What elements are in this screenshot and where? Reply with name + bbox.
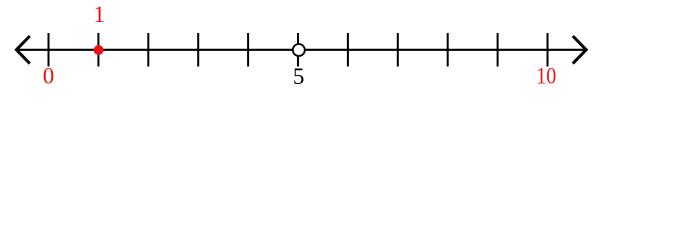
tick 5 [297,33,299,67]
tick 10 [547,33,549,67]
svg-text:1: 1 [93,2,105,27]
tick 6 [347,33,349,67]
svg-text:5: 5 [293,64,305,89]
svg-text:0: 0 [43,64,55,89]
tick 4 [247,33,249,67]
closed red point at 1 [94,45,104,55]
tick 2 [147,33,149,67]
open circle at 5 [293,44,305,56]
tick 3 [197,33,199,67]
tick 0 [48,33,50,67]
tick 1 [97,33,99,67]
svg-text:10: 10 [536,64,556,89]
tick 8 [447,33,449,67]
number line axis [17,49,586,51]
tick 7 [397,33,399,67]
tick 9 [497,33,499,67]
left arrowhead [16,36,29,64]
right arrowhead [573,36,586,64]
